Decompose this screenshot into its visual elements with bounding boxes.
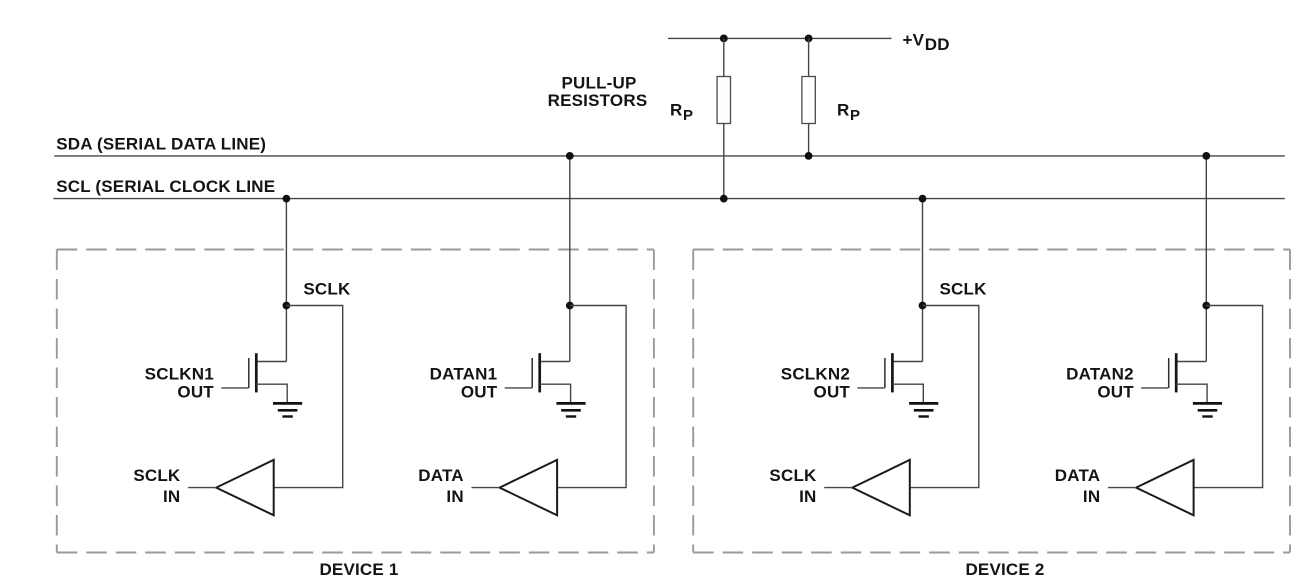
label RP (right resistor) <box>837 101 860 124</box>
node label SCLK (device 1) <box>303 280 351 299</box>
svg-text:IN: IN <box>1083 487 1100 506</box>
svg-text:SCL (SERIAL CLOCK LINE: SCL (SERIAL CLOCK LINE <box>56 177 275 196</box>
transistor SCLKN1 gate bar <box>248 358 250 388</box>
transistor DATAN2 (NMOS): drain lead <box>1176 361 1206 363</box>
label PULL-UP RESISTORS <box>548 74 648 110</box>
svg-text:DATAN2: DATAN2 <box>1066 365 1134 384</box>
ground symbol under SCLKN2 <box>909 403 938 416</box>
transistor SCLKN2 gate lead wire <box>857 387 885 389</box>
transistor DATAN1 gate lead wire <box>505 387 533 389</box>
junction dot on bus line at top of DATA (device 2) tap <box>1202 152 1210 160</box>
label DATA IN at buffer output <box>418 466 464 506</box>
node label SCLK (device 2) <box>940 280 988 299</box>
label DATAN1 OUT for transistor gate <box>430 365 498 402</box>
wire: buffer output lead to SCLK IN <box>824 487 852 489</box>
transistor DATAN2 gate bar <box>1168 358 1170 388</box>
junction dot on bus line at top of DATA (device 1) tap <box>566 152 574 160</box>
resistor RP1 body <box>717 77 730 124</box>
wire: resistor RP2 down to SDA line <box>808 124 810 156</box>
transistor SCLKN1 source lead wire to ground <box>256 384 287 402</box>
transistor SCLKN2 source lead wire to ground <box>892 384 923 402</box>
wire: SCLK (device 2) bus tap, vertical from bus down to node and transistor drain <box>922 199 924 362</box>
resistor RP2 body <box>802 77 815 124</box>
label SCLK IN at buffer output <box>769 466 817 506</box>
node DATA (device 1) internal junction dot <box>566 302 574 310</box>
svg-text:IN: IN <box>799 487 816 506</box>
label SCL (SERIAL CLOCK LINE <box>56 177 275 196</box>
transistor DATAN1 channel bar <box>538 353 541 392</box>
svg-text:OUT: OUT <box>1097 382 1134 401</box>
label +VDD <box>903 31 950 55</box>
wire: resistor RP1 down to SCL line (crosses SDA) <box>723 124 725 199</box>
DEVICE 2 dashed enclosure box <box>693 250 1290 553</box>
buffer (input triangle) for DATA IN <box>1136 460 1194 515</box>
wire: DATA (device 1) bus tap, vertical from bus down to node and transistor drain <box>569 156 571 362</box>
transistor SCLKN1 (NMOS): drain lead <box>256 361 286 363</box>
DEVICE 1 dashed enclosure box <box>57 250 654 553</box>
junction dot on VDD rail above RP1 <box>720 35 728 43</box>
svg-text:IN: IN <box>446 487 463 506</box>
svg-text:DEVICE 2: DEVICE 2 <box>965 560 1044 578</box>
transistor SCLKN2 gate bar <box>884 358 886 388</box>
svg-text:IN: IN <box>163 487 180 506</box>
svg-text:P: P <box>683 107 693 124</box>
transistor SCLKN2 channel bar <box>891 353 894 392</box>
label DEVICE 1 <box>319 560 398 579</box>
wire: buffer output lead to DATA IN <box>472 487 500 489</box>
transistor DATAN2 source lead wire to ground <box>1176 384 1207 402</box>
wire: node branch right and down to buffer input <box>274 306 343 488</box>
node SCLK (device 1) internal junction dot <box>283 302 291 310</box>
svg-text:R: R <box>670 101 682 120</box>
label SCLK IN at buffer output <box>133 466 181 506</box>
buffer (input triangle) for DATA IN <box>500 460 557 515</box>
svg-text:P: P <box>850 107 860 124</box>
+VDD supply rail wire <box>668 37 892 39</box>
wire: buffer output lead to DATA IN <box>1108 487 1136 489</box>
label DATA IN at buffer output <box>1055 466 1101 506</box>
junction dot SDA/RP2 <box>805 152 813 160</box>
ground symbol under SCLKN1 <box>273 403 302 416</box>
label SCLKN2 OUT for transistor gate <box>781 365 851 402</box>
junction dot on bus line at top of SCLK (device 1) tap <box>283 195 291 203</box>
svg-text:SCLK: SCLK <box>133 466 181 485</box>
wire: node branch right and down to buffer input <box>1194 306 1263 488</box>
transistor DATAN2 channel bar <box>1175 353 1178 392</box>
svg-text:SCLKN2: SCLKN2 <box>781 365 850 384</box>
transistor DATAN1 source lead wire to ground <box>540 384 571 402</box>
label RP (left resistor) <box>670 101 693 124</box>
wire: VDD rail to resistor RP1 <box>723 38 725 77</box>
transistor SCLKN1 gate lead wire <box>221 387 249 389</box>
svg-text:DATAN1: DATAN1 <box>430 365 498 384</box>
transistor SCLKN2 (NMOS): drain lead <box>892 361 922 363</box>
ground symbol under DATAN1 <box>556 403 585 416</box>
wire: node branch right and down to buffer input <box>910 306 979 488</box>
transistor DATAN1 (NMOS): drain lead <box>540 361 570 363</box>
transistor DATAN1 gate bar <box>531 358 533 388</box>
svg-text:OUT: OUT <box>177 382 214 401</box>
wire: buffer output lead to SCLK IN <box>188 487 216 489</box>
buffer (input triangle) for SCLK IN <box>216 460 274 515</box>
wire: SCLK (device 1) bus tap, vertical from bus down to node and transistor drain <box>285 199 287 362</box>
node DATA (device 2) internal junction dot <box>1202 302 1210 310</box>
wire: VDD rail to resistor RP2 <box>808 38 810 77</box>
svg-text:SCLK: SCLK <box>769 466 817 485</box>
wire: SCL bus line <box>53 198 1284 200</box>
junction dot on VDD rail above RP2 <box>805 35 813 43</box>
label SCLKN1 OUT for transistor gate <box>145 365 215 402</box>
svg-text:DATA: DATA <box>1055 466 1101 485</box>
svg-text:SCLK: SCLK <box>940 280 988 299</box>
svg-text:R: R <box>837 101 849 120</box>
wire: node branch right and down to buffer input <box>557 306 626 488</box>
node SCLK (device 2) internal junction dot <box>919 302 927 310</box>
junction dot on bus line at top of SCLK (device 2) tap <box>919 195 927 203</box>
svg-text:OUT: OUT <box>814 382 851 401</box>
wire: DATA (device 2) bus tap, vertical from bus down to node and transistor drain <box>1205 156 1207 362</box>
svg-text:DEVICE 1: DEVICE 1 <box>319 560 398 578</box>
svg-text:OUT: OUT <box>461 382 498 401</box>
svg-text:SCLK: SCLK <box>303 280 351 299</box>
svg-text:RESISTORS: RESISTORS <box>548 91 648 110</box>
wire: SDA bus line <box>54 155 1285 157</box>
svg-text:DATA: DATA <box>418 466 464 485</box>
transistor DATAN2 gate lead wire <box>1141 387 1169 389</box>
svg-text:SCLKN1: SCLKN1 <box>145 365 214 384</box>
buffer (input triangle) for SCLK IN <box>852 460 910 515</box>
label DATAN2 OUT for transistor gate <box>1066 365 1134 402</box>
junction dot SCL/RP1 <box>720 195 728 203</box>
svg-text:DD: DD <box>925 35 950 54</box>
svg-text:+V: +V <box>903 31 925 50</box>
svg-text:SDA (SERIAL DATA LINE): SDA (SERIAL DATA LINE) <box>56 135 266 154</box>
ground symbol under DATAN2 <box>1193 403 1222 416</box>
label SDA (SERIAL DATA LINE) <box>56 135 266 154</box>
label DEVICE 2 <box>965 560 1044 579</box>
transistor SCLKN1 channel bar <box>255 353 258 392</box>
